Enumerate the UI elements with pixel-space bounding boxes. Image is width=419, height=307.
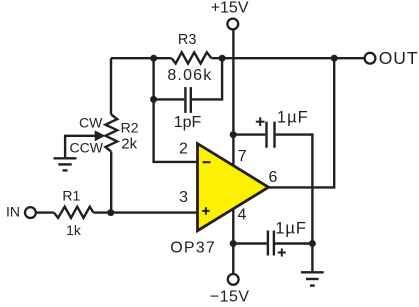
svg-text:1k: 1k: [66, 222, 82, 238]
svg-text:R2: R2: [121, 120, 139, 136]
svg-text:1pF: 1pF: [174, 114, 202, 131]
svg-text:7: 7: [238, 148, 247, 165]
svg-text:OUT: OUT: [379, 48, 419, 68]
svg-text:6: 6: [269, 169, 278, 186]
svg-text:1µF: 1µF: [275, 219, 307, 237]
svg-text:8.06k: 8.06k: [167, 67, 212, 84]
svg-text:OP37: OP37: [170, 240, 216, 257]
svg-text:IN: IN: [6, 203, 20, 219]
svg-text:+15V: +15V: [211, 0, 249, 17]
svg-text:CCW: CCW: [69, 139, 103, 155]
svg-text:2: 2: [179, 141, 188, 158]
svg-text:2k: 2k: [121, 135, 137, 152]
svg-text:CW: CW: [79, 114, 103, 130]
svg-text:R3: R3: [178, 32, 197, 48]
svg-text:−15V: −15V: [210, 289, 250, 306]
svg-text:4: 4: [238, 207, 247, 224]
svg-text:R1: R1: [62, 188, 80, 204]
svg-text:3: 3: [179, 189, 188, 206]
svg-text:1µF: 1µF: [277, 109, 309, 127]
